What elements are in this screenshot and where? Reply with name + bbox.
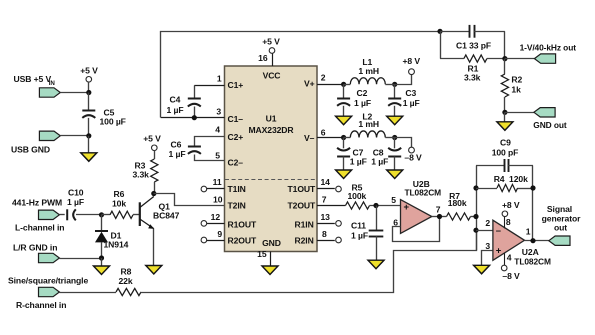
inductor L2 1mH <box>350 131 385 138</box>
svg-text:1: 1 <box>526 226 531 236</box>
node B output 40kHz junction <box>502 56 507 61</box>
capacitor C9 <box>476 165 504 167</box>
node R4 left junction <box>473 185 478 190</box>
capacitor C3 <box>394 84 396 99</box>
svg-text:1 µF: 1 µF <box>350 157 367 167</box>
svg-text:7: 7 <box>322 194 327 204</box>
wire R8 to U2A summing node <box>141 231 477 293</box>
svg-text:T2IN: T2IN <box>228 201 246 211</box>
ground under Q1 emitter <box>146 266 162 275</box>
node L1 / C3 junction <box>392 82 397 87</box>
svg-text:4: 4 <box>507 253 512 263</box>
svg-text:L-channel in: L-channel in <box>15 223 64 233</box>
svg-text:out: out <box>554 222 567 232</box>
resistor R3 <box>154 151 156 160</box>
node V+ / C2 junction <box>341 82 346 87</box>
capacitor C10 <box>59 214 64 216</box>
svg-text:T2OUT: T2OUT <box>288 201 317 211</box>
svg-text:Sine/square/triangle: Sine/square/triangle <box>8 275 88 285</box>
svg-text:T1IN: T1IN <box>228 184 246 194</box>
svg-text:15: 15 <box>257 249 267 259</box>
pin 5 C2- <box>195 155 225 161</box>
node L-channel junction <box>99 212 104 217</box>
svg-text:22k: 22k <box>119 276 133 286</box>
ground under C7 <box>336 170 352 179</box>
svg-text:+8 V: +8 V <box>403 56 421 66</box>
svg-text:R2IN: R2IN <box>295 235 314 245</box>
connector GND out <box>534 108 555 117</box>
pin 6 V- <box>317 137 344 139</box>
terminal +8V <box>409 69 415 75</box>
op-amp U2B TL082CM <box>401 200 432 234</box>
resistor R7 <box>447 213 471 220</box>
svg-text:1 µF: 1 µF <box>67 197 84 207</box>
svg-text:1 µF: 1 µF <box>403 98 420 108</box>
svg-text:R8: R8 <box>121 267 132 277</box>
terminal +5V circle <box>86 77 92 83</box>
node U2A output junction <box>530 238 535 243</box>
resistor R4 <box>476 188 497 190</box>
wire U2B output <box>432 216 447 218</box>
svg-text:R2OUT: R2OUT <box>228 235 257 245</box>
svg-text:L/R GND in: L/R GND in <box>13 242 57 252</box>
capacitor C6 <box>188 146 201 148</box>
svg-text:1-V/40-kHz out: 1-V/40-kHz out <box>520 43 577 53</box>
svg-text:R1IN: R1IN <box>295 219 314 229</box>
resistor R5 <box>346 202 370 209</box>
node Q1 collector junction <box>151 191 156 196</box>
svg-text:+: + <box>404 202 410 213</box>
svg-text:C1–: C1– <box>228 114 244 124</box>
ground under C11 <box>368 260 384 269</box>
svg-text:C1+: C1+ <box>228 80 244 90</box>
svg-text:+5 V: +5 V <box>80 65 98 75</box>
capacitor C2 <box>343 84 345 99</box>
capacitor C5 <box>88 93 90 111</box>
node USB +5V junction <box>86 90 91 95</box>
wire USB GND to node <box>60 135 89 137</box>
svg-text:BC847: BC847 <box>153 211 180 221</box>
wire U2B feedback loop pin6 <box>393 217 440 242</box>
node L2 / C8 junction <box>392 135 397 140</box>
svg-text:C3: C3 <box>405 88 416 98</box>
connector 1-V/40-kHz out <box>534 54 555 63</box>
pin 15 GND <box>270 252 272 267</box>
svg-text:C4: C4 <box>170 94 181 104</box>
svg-text:U1: U1 <box>266 114 277 124</box>
wire top net from pin3/C1- up and across to C1/R1 attenuator <box>161 32 441 118</box>
pin 8 +8V supply <box>504 217 506 229</box>
svg-text:TL082CM: TL082CM <box>405 187 442 197</box>
pin 8 R2IN (n.c.) <box>317 240 335 242</box>
node R7 junction <box>473 214 478 219</box>
svg-text:USB GND: USB GND <box>11 145 50 155</box>
svg-text:+5 V: +5 V <box>143 133 161 143</box>
node V- / C7 junction <box>341 135 346 140</box>
svg-text:6: 6 <box>321 127 326 137</box>
svg-text:10k: 10k <box>112 198 126 208</box>
svg-text:441-Hz PWM: 441-Hz PWM <box>12 197 62 207</box>
ground under U2A pin3 <box>474 265 490 274</box>
wire to 1V/40kHz connector <box>505 58 535 60</box>
wire U2A output <box>525 240 549 242</box>
ground under pin 15 <box>262 266 278 275</box>
svg-text:180k: 180k <box>448 198 467 208</box>
ground under R2 <box>504 112 506 122</box>
pin 3 C1- wire <box>161 117 225 119</box>
svg-text:R4 120k: R4 120k <box>494 174 528 184</box>
svg-text:C2: C2 <box>357 88 368 98</box>
node L/R GND junction <box>99 255 104 260</box>
svg-text:16: 16 <box>258 53 268 63</box>
svg-text:100 pF: 100 pF <box>492 147 519 157</box>
transistor Q1 BC847 <box>139 202 141 226</box>
svg-text:T1OUT: T1OUT <box>288 184 317 194</box>
pin 9 R2OUT (n.c.) <box>207 240 225 242</box>
svg-text:MAX232DR: MAX232DR <box>248 125 294 135</box>
svg-text:C9: C9 <box>500 138 511 148</box>
svg-text:1 µF: 1 µF <box>354 98 371 108</box>
svg-text:3: 3 <box>216 107 221 117</box>
inductor L1 1mH <box>350 78 385 85</box>
wire pin3 to ground <box>482 251 493 266</box>
svg-text:GND out: GND out <box>533 120 567 130</box>
svg-text:VCC: VCC <box>263 70 281 80</box>
pin 2 V+ <box>317 84 344 86</box>
svg-text:3.3k: 3.3k <box>133 169 150 179</box>
node A junction C1/R1 left <box>437 29 442 34</box>
ground under diode <box>101 258 103 266</box>
capacitor C11 <box>376 206 378 231</box>
svg-text:USB +5 V: USB +5 V <box>14 74 52 84</box>
svg-text:3.3k: 3.3k <box>464 72 481 82</box>
ground under C8 <box>387 170 403 179</box>
pin 11 T1IN (n.c.) <box>207 188 225 190</box>
svg-text:GND: GND <box>262 238 281 248</box>
node R4 right junction <box>530 185 535 190</box>
svg-text:–8 V: –8 V <box>404 152 422 162</box>
svg-text:R6: R6 <box>114 189 125 199</box>
svg-text:–: – <box>496 226 501 237</box>
resistor R2 <box>504 59 506 74</box>
node pin2 junction <box>473 228 478 233</box>
svg-text:14: 14 <box>321 177 331 187</box>
svg-text:+: + <box>496 245 502 256</box>
node R5/C11 junction <box>373 203 378 208</box>
svg-text:1: 1 <box>217 74 222 84</box>
capacitor C8 <box>394 138 396 149</box>
wire USB+5V to node <box>60 92 89 94</box>
svg-text:C11: C11 <box>351 221 366 231</box>
svg-text:13: 13 <box>321 212 331 222</box>
svg-text:10: 10 <box>213 195 223 205</box>
terminal -8V <box>409 147 415 153</box>
wire R4/C9 right vertical to output <box>532 166 534 241</box>
wire to +8V terminal <box>395 75 412 85</box>
svg-text:100 µF: 100 µF <box>100 116 126 126</box>
svg-text:C1 33 pF: C1 33 pF <box>456 40 491 50</box>
wire to GND out connector <box>505 112 534 114</box>
dashed separator inside U1 <box>225 179 317 181</box>
svg-text:4: 4 <box>215 125 220 135</box>
svg-text:TL082CM: TL082CM <box>514 256 551 266</box>
svg-text:100k: 100k <box>348 191 367 201</box>
node C4/pin3 junction <box>192 115 197 120</box>
svg-text:1 µF: 1 µF <box>371 157 388 167</box>
node U2B output junction <box>437 214 442 219</box>
svg-text:C2+: C2+ <box>228 132 244 142</box>
svg-text:7: 7 <box>436 205 441 215</box>
pin 14 T1OUT (n.c.) <box>317 188 335 190</box>
svg-text:12: 12 <box>211 212 221 222</box>
svg-text:V–: V– <box>304 133 315 143</box>
svg-text:R-channel in: R-channel in <box>16 300 66 310</box>
pin 7 T2OUT <box>317 205 346 207</box>
resistor R8 <box>59 292 116 294</box>
svg-text:1N914: 1N914 <box>104 240 129 250</box>
pin 16 VCC <box>272 53 274 66</box>
svg-text:3: 3 <box>485 241 490 251</box>
svg-text:+8 V: +8 V <box>502 200 520 210</box>
wire collector to T2IN pin10 <box>154 194 225 206</box>
svg-text:–8 V: –8 V <box>502 271 520 281</box>
svg-text:11: 11 <box>213 177 222 187</box>
wire L/R GND to node <box>59 258 101 260</box>
diode D1 1N914 <box>101 215 103 231</box>
svg-text:1 µF: 1 µF <box>167 105 184 115</box>
node GND out junction <box>502 110 507 115</box>
svg-text:8: 8 <box>322 229 327 239</box>
svg-text:2: 2 <box>321 73 326 83</box>
svg-text:5: 5 <box>215 150 220 160</box>
svg-text:9: 9 <box>217 229 222 239</box>
svg-text:C2–: C2– <box>228 158 244 168</box>
pin 4 -8V supply <box>504 253 506 266</box>
node USB GND junction <box>86 133 91 138</box>
connector Signal generator out <box>549 236 570 245</box>
svg-text:1 mH: 1 mH <box>358 119 379 129</box>
op-amp U2A TL082CM <box>493 220 525 260</box>
svg-text:R2: R2 <box>511 75 522 85</box>
svg-text:1k: 1k <box>511 85 521 95</box>
wire emitter to ground <box>153 229 155 266</box>
capacitor C7 <box>343 138 345 149</box>
resistor R6 <box>102 214 111 216</box>
ground under C2 <box>336 116 352 125</box>
resistor R1 <box>440 58 464 60</box>
ground under USB GND <box>88 136 90 153</box>
svg-text:+5 V: +5 V <box>262 37 280 47</box>
wire summing node vertical <box>476 166 478 251</box>
svg-text:C10: C10 <box>68 187 84 197</box>
svg-text:2: 2 <box>485 218 490 228</box>
capacitor C1 <box>440 31 469 33</box>
pin 12 R1OUT (n.c.) <box>207 223 225 225</box>
capacitor C4 <box>194 85 196 99</box>
svg-text:1 mH: 1 mH <box>358 66 379 76</box>
wire to -8V terminal <box>395 138 412 148</box>
svg-text:8: 8 <box>506 217 511 227</box>
svg-text:R1OUT: R1OUT <box>228 219 257 229</box>
terminal +5V circle over R3 <box>152 145 158 151</box>
pin 4 C2+ <box>195 137 225 147</box>
pin 13 R1IN (n.c.) <box>317 223 335 225</box>
svg-text:IN: IN <box>49 80 56 87</box>
svg-text:1 µF: 1 µF <box>169 149 186 159</box>
pin 1 C1+ <box>194 85 224 87</box>
svg-text:1 µF: 1 µF <box>351 230 368 240</box>
ground under C3 <box>387 116 403 125</box>
svg-text:5: 5 <box>391 195 396 205</box>
svg-text:C6: C6 <box>171 139 182 149</box>
wire pin2 stub <box>476 230 493 232</box>
op IC body U1 <box>225 66 318 252</box>
svg-text:V+: V+ <box>304 79 315 89</box>
